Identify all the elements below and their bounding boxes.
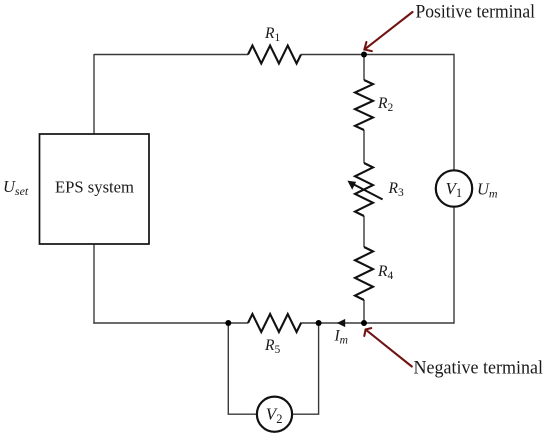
node positive terminal junction	[361, 52, 367, 58]
node R5 right junction	[316, 320, 322, 326]
wire middle branch: R3 to R4	[363, 216, 365, 247]
wire right vertical upper: top corner down to voltmeter V1	[453, 54, 455, 171]
wire top-right: from R1 through node to right corner	[301, 54, 454, 56]
node R5 left junction	[225, 320, 231, 326]
annotation arrow positive terminal	[364, 12, 412, 51]
voltmeter V2	[257, 397, 292, 432]
wire middle branch: R4 to bottom node	[363, 300, 365, 323]
resistor R1	[248, 46, 301, 64]
wire left vertical upper: top wire down to EPS box	[93, 54, 95, 134]
svg-text:EPS system: EPS system	[55, 178, 134, 197]
wire middle branch: node to R2	[363, 55, 365, 81]
wire bottom-right: R5 to right corner	[300, 322, 454, 324]
wire V2 branch right: node down and to voltmeter V2	[292, 323, 319, 414]
resistor R4	[355, 247, 373, 300]
resistor R5	[248, 314, 301, 332]
svg-text:Positive terminal: Positive terminal	[416, 2, 536, 23]
wire middle branch: R2 to R3	[363, 130, 365, 163]
voltmeter V1	[436, 170, 472, 206]
wire bottom-left: left branch to R5	[93, 322, 248, 324]
EPS system box	[40, 134, 150, 244]
svg-text:Negative terminal: Negative terminal	[414, 358, 544, 379]
wire V2 branch left: node down and to voltmeter V2	[228, 323, 257, 414]
resistor R2	[355, 80, 373, 130]
node negative terminal junction	[361, 320, 367, 326]
potentiometer R3	[347, 163, 382, 216]
wire left vertical lower: EPS box down to bottom wire	[93, 245, 95, 324]
wire top-left: from left branch to R1	[94, 54, 248, 56]
annotation arrow negative terminal	[364, 328, 412, 366]
wire right vertical lower: voltmeter V1 down to bottom corner	[453, 207, 455, 324]
current arrow Im	[337, 319, 345, 327]
